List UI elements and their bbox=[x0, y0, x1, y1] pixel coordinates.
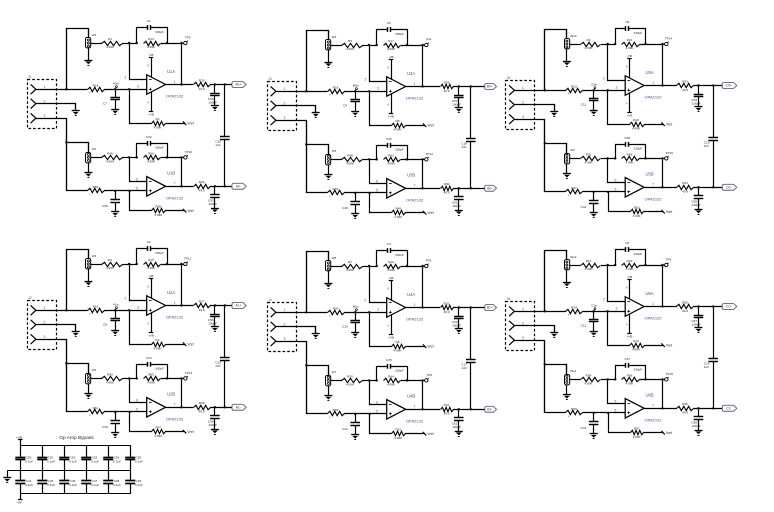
junction output/feedback lower bbox=[661, 186, 663, 188]
svg-text:4.99K: 4.99K bbox=[632, 126, 641, 130]
svg-text:4.99K: 4.99K bbox=[633, 214, 642, 218]
wire feedback right lower bbox=[161, 157, 182, 159]
capacitor C49 0.1uF bbox=[125, 471, 143, 494]
jumper W4 bbox=[86, 254, 97, 269]
jumper W10 bbox=[565, 34, 577, 49]
svg-text:TP4: TP4 bbox=[426, 38, 432, 42]
wire to inverting node bbox=[362, 266, 376, 268]
power rail -VB (pin 8) bbox=[387, 55, 393, 79]
svg-text:TP14: TP14 bbox=[665, 37, 673, 41]
wire TP stub lower bbox=[423, 159, 425, 161]
wire TP node stub bbox=[663, 265, 665, 267]
svg-text:R1: R1 bbox=[108, 37, 112, 41]
wire to inverting node lower bbox=[362, 159, 376, 161]
svg-text:TP8: TP8 bbox=[666, 258, 672, 262]
svg-text:R52: R52 bbox=[586, 152, 592, 156]
wire output to tag lower bbox=[453, 188, 485, 190]
output tag C1+ bbox=[722, 304, 737, 310]
svg-text:7: 7 bbox=[414, 405, 416, 409]
wire inverting node to pin6 bbox=[370, 381, 387, 405]
wire W bottom to ground lower bbox=[328, 386, 330, 396]
ground under W4 bbox=[84, 282, 92, 287]
ground under C64 bbox=[695, 107, 703, 112]
svg-text:TP9: TP9 bbox=[185, 36, 191, 40]
resistor R60 4.99K bbox=[102, 372, 123, 384]
wire W to R3 bbox=[91, 264, 102, 266]
junction output/feedback bbox=[421, 306, 423, 308]
capacitor C62 100pF lower bbox=[452, 409, 464, 431]
svg-text:4.99K: 4.99K bbox=[346, 268, 355, 272]
svg-text:5: 5 bbox=[615, 408, 617, 412]
junction C output top bbox=[697, 305, 699, 307]
svg-text:3: 3 bbox=[137, 85, 139, 89]
svg-text:4.99K: 4.99K bbox=[633, 435, 642, 439]
svg-text:100pF: 100pF bbox=[452, 102, 461, 106]
junction diff cap top bbox=[224, 304, 226, 306]
wire feedback to output lower bbox=[662, 158, 664, 187]
junction input node bbox=[593, 89, 595, 91]
svg-text:4.99K: 4.99K bbox=[106, 45, 115, 49]
svg-text:R31: R31 bbox=[444, 403, 450, 407]
svg-text:B1+: B1+ bbox=[487, 306, 493, 310]
output tag B1+ bbox=[485, 305, 497, 311]
jumper W1 bbox=[86, 147, 97, 163]
svg-text:R33: R33 bbox=[682, 79, 688, 83]
junction feedback left bbox=[614, 264, 616, 266]
svg-text:R53: R53 bbox=[634, 206, 640, 210]
junction inverting node lower bbox=[128, 156, 130, 158]
svg-text:1nF: 1nF bbox=[461, 366, 466, 370]
svg-text:-VB: -VB bbox=[148, 274, 153, 278]
junction inverting node bbox=[128, 263, 130, 265]
power rail +VB (pin 4) bbox=[147, 313, 153, 338]
svg-text:OPA2132: OPA2132 bbox=[166, 195, 184, 200]
wire J pin2 to ground bbox=[276, 106, 316, 113]
svg-text:330pF: 330pF bbox=[155, 366, 164, 370]
capacitor C39 bbox=[102, 412, 120, 433]
wire W loop top bbox=[67, 29, 89, 90]
wire J pin3 to lower half input bbox=[36, 119, 88, 191]
svg-text:C7: C7 bbox=[103, 101, 107, 105]
wire op-amp output top bbox=[166, 305, 194, 307]
wire W loop bottom bbox=[307, 145, 329, 155]
svg-text:R47: R47 bbox=[155, 426, 161, 430]
svg-text:4.99K: 4.99K bbox=[632, 347, 641, 351]
jumper W2 bbox=[86, 33, 97, 48]
svg-text:4.99K: 4.99K bbox=[625, 161, 634, 165]
junction feedback left bbox=[376, 265, 378, 267]
wire feedback right lower bbox=[161, 378, 182, 380]
svg-text:R68: R68 bbox=[627, 373, 633, 377]
junction inverting node lower bbox=[128, 377, 130, 379]
svg-text:R64: R64 bbox=[388, 374, 394, 378]
wire input node bbox=[344, 312, 387, 314]
op-amp U4B OPA2132 bbox=[376, 394, 424, 424]
svg-text:3: 3 bbox=[43, 114, 45, 118]
svg-text:Vref: Vref bbox=[427, 432, 433, 436]
power rail +VB (pin 4) bbox=[387, 94, 393, 119]
capacitor C37 330pF lower bbox=[616, 357, 646, 380]
resistor R15 4.99K feedback bbox=[144, 258, 161, 270]
svg-text:C32: C32 bbox=[146, 135, 152, 139]
op-amp U1B OPA2132 bbox=[136, 171, 184, 201]
wire feedback to output lower bbox=[422, 159, 424, 188]
junction output/feedback lower bbox=[421, 187, 423, 189]
svg-text:C8: C8 bbox=[103, 322, 107, 326]
svg-text:C28: C28 bbox=[102, 204, 108, 208]
svg-text:-VB: -VB bbox=[388, 276, 393, 280]
wire to inverting node lower bbox=[601, 158, 615, 160]
svg-text:R22: R22 bbox=[571, 84, 577, 88]
svg-text:R20: R20 bbox=[333, 306, 339, 310]
capacitor C46 0.1uF bbox=[59, 471, 77, 494]
resistor R17 4.99K feedback bbox=[384, 39, 401, 51]
wire W loop top bbox=[307, 252, 329, 313]
resistor R14 input bbox=[88, 83, 105, 95]
svg-text:+VB: +VB bbox=[388, 336, 394, 340]
svg-text:6: 6 bbox=[615, 399, 617, 403]
svg-text:TP12: TP12 bbox=[426, 152, 434, 156]
svg-text:A0+: A0+ bbox=[235, 83, 241, 87]
junction pin3 vertical / W loop lower bbox=[544, 142, 546, 144]
svg-text:4.99K: 4.99K bbox=[625, 382, 634, 386]
junction input node lower bbox=[593, 191, 595, 193]
svg-text:R24: R24 bbox=[571, 305, 577, 309]
wire TP node stub bbox=[423, 45, 425, 47]
wire middle rail bbox=[7, 470, 130, 472]
ground under W5 bbox=[324, 175, 332, 180]
svg-text:Vref: Vref bbox=[666, 343, 672, 347]
test point TP13 bbox=[184, 371, 193, 380]
power rail -VB (pin 8) bbox=[147, 274, 153, 298]
junction output/feedback bbox=[421, 85, 423, 87]
wire TP node stub bbox=[182, 43, 184, 45]
junction output/feedback lower bbox=[421, 408, 423, 410]
svg-text:2: 2 bbox=[364, 299, 366, 303]
resistor R25 49.9 bbox=[194, 78, 211, 91]
resistor R4 4.99K to Vref bbox=[130, 311, 185, 351]
wire W loop bottom bbox=[545, 365, 567, 375]
svg-text:5: 5 bbox=[136, 186, 138, 190]
svg-text:R11: R11 bbox=[586, 259, 592, 263]
junction feedback left bbox=[136, 263, 138, 265]
wire output to tag lower bbox=[210, 186, 232, 188]
junction diff cap lower bbox=[470, 187, 472, 189]
wire W bottom to ground bbox=[566, 49, 568, 61]
svg-text:2: 2 bbox=[124, 76, 126, 80]
resistor R26 49.9 lower bbox=[194, 180, 211, 193]
output tag B0+ bbox=[485, 84, 497, 90]
resistor R58 4.99K to Vref lower bbox=[130, 191, 185, 217]
svg-text:R48: R48 bbox=[347, 153, 353, 157]
ground under W1 bbox=[84, 173, 92, 178]
Vref net top bbox=[661, 122, 672, 126]
wire to inverting node bbox=[362, 45, 376, 47]
svg-text:2: 2 bbox=[522, 321, 524, 325]
ground under C63 bbox=[455, 329, 463, 334]
wire J pin1 to R input bbox=[514, 311, 566, 313]
wire J pin1 to R input bbox=[36, 310, 88, 312]
svg-text:Vref: Vref bbox=[187, 121, 193, 125]
svg-text:R51: R51 bbox=[395, 428, 401, 432]
svg-text:+VB: +VB bbox=[388, 115, 394, 119]
test point TP6 bbox=[425, 373, 433, 382]
wire W to R50 bbox=[331, 380, 342, 382]
junction TP node lower bbox=[661, 157, 663, 159]
output tag C1- bbox=[722, 405, 737, 411]
resistor R2 4.99K to Vref bbox=[130, 90, 185, 130]
junction feedback right bbox=[166, 263, 168, 265]
capacitor C14 1nF differential bbox=[704, 307, 718, 409]
ground under W11 bbox=[563, 395, 571, 400]
svg-text:3: 3 bbox=[283, 116, 285, 120]
svg-text:W8: W8 bbox=[332, 256, 337, 260]
svg-text:2: 2 bbox=[603, 298, 605, 302]
wire inverting node to pin2 bbox=[130, 44, 147, 80]
net flag A1in bbox=[113, 302, 119, 310]
svg-text:R36: R36 bbox=[682, 300, 688, 304]
wire J pin1 to R input bbox=[276, 312, 328, 314]
svg-text:R2: R2 bbox=[156, 117, 160, 121]
svg-text:49.9: 49.9 bbox=[199, 189, 205, 193]
wire feedback right bbox=[401, 266, 423, 268]
svg-text:Vref: Vref bbox=[666, 431, 672, 435]
capacitor C53 0.1uF bbox=[81, 445, 99, 471]
wire feedback to output bbox=[422, 45, 424, 87]
junction TP node lower bbox=[180, 156, 182, 158]
svg-text:1: 1 bbox=[283, 87, 285, 91]
resistor R50 4.99K bbox=[342, 374, 363, 386]
capacitor C52 0.1uF bbox=[59, 445, 77, 471]
resistor R13 4.99K feedback bbox=[144, 37, 161, 49]
resistor R49 4.99K to Vref lower bbox=[370, 193, 425, 219]
svg-text:0.1uF: 0.1uF bbox=[113, 483, 121, 487]
capacitor C51 0.1uF bbox=[37, 445, 55, 471]
junction vref branch top bbox=[607, 310, 609, 312]
junction pin1/W loop bbox=[65, 309, 67, 311]
svg-text:330pF: 330pF bbox=[634, 367, 643, 371]
wire feedback to output bbox=[662, 265, 664, 307]
resistor R30 49.9 lower bbox=[441, 182, 454, 195]
junction output/feedback lower bbox=[180, 406, 182, 408]
wire to inverting node lower bbox=[362, 380, 376, 382]
wire input node lower bbox=[344, 192, 387, 194]
svg-text:W12: W12 bbox=[570, 255, 577, 259]
junction pin3 vertical / W loop lower bbox=[305, 364, 307, 366]
svg-text:6: 6 bbox=[376, 400, 378, 404]
junction feedback right lower bbox=[644, 378, 646, 380]
jumper W6 bbox=[326, 35, 337, 50]
junction feedback left lower bbox=[136, 156, 138, 158]
junction TP node bbox=[661, 43, 663, 45]
svg-text:1nF: 1nF bbox=[461, 145, 466, 149]
wire output to tag lower bbox=[210, 407, 232, 409]
svg-text:330pF: 330pF bbox=[395, 147, 404, 151]
wire W loop bottom bbox=[67, 143, 89, 153]
capacitor C65 100pF lower bbox=[691, 187, 703, 209]
resistor R23 4.99K feedback bbox=[622, 259, 640, 271]
junction pin3 vertical / W loop lower bbox=[65, 141, 67, 143]
svg-text:TP6: TP6 bbox=[426, 373, 432, 377]
svg-text:R32: R32 bbox=[444, 301, 450, 305]
svg-text:7: 7 bbox=[174, 182, 176, 186]
svg-text:3: 3 bbox=[283, 337, 285, 341]
resistor R35 49.9 lower bbox=[677, 402, 694, 415]
wire op-amp output lower bbox=[166, 186, 194, 188]
svg-text:100pF: 100pF bbox=[692, 322, 701, 326]
test point TP9 bbox=[184, 36, 191, 45]
svg-text:J2: J2 bbox=[28, 296, 32, 300]
wire feedback right lower bbox=[401, 159, 423, 161]
jumper W3 bbox=[86, 368, 97, 384]
resistor R68 4.99K feedback lower bbox=[622, 373, 640, 385]
wire output to tag top bbox=[453, 86, 485, 88]
wire W loop top bbox=[67, 250, 89, 311]
svg-text:C41: C41 bbox=[342, 427, 348, 431]
junction vref branch top bbox=[128, 88, 130, 90]
svg-text:B1in: B1in bbox=[353, 304, 359, 308]
junction TP node lower bbox=[421, 158, 423, 160]
junction input node lower bbox=[593, 412, 595, 414]
junction diff cap lower bbox=[224, 185, 226, 187]
output tag C0- bbox=[722, 184, 737, 190]
svg-text:OPA2132: OPA2132 bbox=[166, 315, 184, 320]
svg-text:W5: W5 bbox=[332, 149, 337, 153]
wire feedback to output bbox=[662, 44, 664, 86]
svg-text:B0-: B0- bbox=[487, 187, 492, 191]
svg-text:1: 1 bbox=[522, 307, 524, 311]
output tag B1- bbox=[485, 406, 497, 412]
wire output to tag lower bbox=[453, 409, 485, 411]
junction vref branch lower bbox=[128, 190, 130, 192]
svg-text:C33: C33 bbox=[146, 356, 152, 360]
svg-text:330pF: 330pF bbox=[395, 368, 404, 372]
wire J pin3 to lower half input bbox=[36, 340, 88, 412]
svg-text:6: 6 bbox=[615, 178, 617, 182]
svg-text:49.9: 49.9 bbox=[199, 87, 205, 91]
junction C output lower bbox=[214, 406, 216, 408]
svg-text:100pF: 100pF bbox=[692, 203, 701, 207]
jumper W8 bbox=[326, 256, 337, 271]
wire TP node stub bbox=[182, 264, 184, 266]
svg-text:R57: R57 bbox=[634, 427, 640, 431]
wire input node bbox=[583, 311, 626, 313]
svg-text:4.99K: 4.99K bbox=[584, 46, 593, 50]
wire op-amp output top bbox=[644, 306, 677, 308]
svg-text:+VB: +VB bbox=[148, 113, 154, 117]
test point TP11 bbox=[184, 257, 192, 266]
wire input node bbox=[104, 310, 147, 312]
wire feedback right bbox=[639, 265, 662, 267]
svg-text:U1A: U1A bbox=[167, 69, 175, 74]
wire output to tag top bbox=[693, 85, 722, 87]
wire to inverting node lower bbox=[122, 378, 136, 380]
svg-text:R29: R29 bbox=[444, 80, 450, 84]
junction diff cap lower bbox=[470, 408, 472, 410]
svg-text:TP16: TP16 bbox=[666, 372, 674, 376]
ground under C10 bbox=[351, 333, 359, 338]
wire W bottom to ground lower bbox=[88, 163, 90, 173]
svg-text:A1in: A1in bbox=[113, 302, 119, 306]
svg-text:-VB: -VB bbox=[148, 53, 153, 57]
svg-text:Vref: Vref bbox=[666, 210, 672, 214]
capacitor C5 330pF bbox=[616, 20, 646, 45]
wire inverting node to pin6 bbox=[608, 159, 626, 183]
wire feedback to output lower bbox=[181, 157, 183, 186]
wire inverting node to pin6 bbox=[130, 379, 147, 403]
svg-text:4.99K: 4.99K bbox=[106, 160, 115, 164]
capacitor C11 bbox=[581, 90, 599, 110]
resistor R65 4.99K feedback lower bbox=[144, 372, 161, 384]
svg-text:R34: R34 bbox=[682, 181, 688, 185]
junction vref branch lower bbox=[368, 413, 370, 415]
svg-text:4.99K: 4.99K bbox=[346, 162, 355, 166]
junction diff cap top bbox=[470, 85, 472, 87]
svg-text:R25: R25 bbox=[199, 78, 205, 82]
svg-text:U5B: U5B bbox=[646, 172, 654, 177]
svg-text:1nF: 1nF bbox=[704, 144, 709, 148]
junction feedback left lower bbox=[376, 379, 378, 381]
resistor R59 input lower bbox=[88, 185, 105, 197]
wire inverting node to pin6 bbox=[370, 160, 387, 184]
Vref net lower bbox=[423, 211, 434, 215]
connector J1 bbox=[28, 75, 57, 129]
wire output to tag top bbox=[210, 84, 232, 86]
power rail +VB (pin 4) bbox=[387, 315, 393, 340]
ground J pin2 bbox=[550, 333, 558, 338]
junction C output lower bbox=[697, 407, 699, 409]
svg-text:+VB: +VB bbox=[148, 334, 154, 338]
wire feedback to output bbox=[181, 264, 183, 306]
junction vref branch lower bbox=[607, 412, 609, 414]
svg-text:1: 1 bbox=[174, 80, 176, 84]
ground under C40 bbox=[351, 214, 359, 219]
svg-text:B0in: B0in bbox=[353, 83, 359, 87]
junction feedback right bbox=[406, 265, 408, 267]
svg-text:4.99K: 4.99K bbox=[393, 348, 402, 352]
svg-text:49.9: 49.9 bbox=[443, 412, 449, 416]
wire TP node stub bbox=[423, 266, 425, 268]
capacitor C19 1nF differential bbox=[215, 306, 229, 408]
svg-text:1: 1 bbox=[652, 302, 654, 306]
svg-text:Vref: Vref bbox=[427, 211, 433, 215]
svg-text:U6A: U6A bbox=[646, 291, 654, 296]
svg-text:R66: R66 bbox=[627, 152, 633, 156]
wire to inverting node bbox=[601, 265, 615, 267]
jumper W12 bbox=[565, 255, 577, 270]
wire W bottom to ground bbox=[328, 271, 330, 283]
junction inverting node bbox=[607, 264, 609, 266]
svg-text:C1in: C1in bbox=[591, 303, 598, 307]
wire TP stub lower bbox=[663, 158, 665, 160]
wire output to tag lower bbox=[693, 187, 722, 189]
ground under C59 bbox=[211, 430, 219, 435]
svg-text:C5: C5 bbox=[625, 20, 629, 24]
svg-text:R23: R23 bbox=[627, 259, 633, 263]
wire to inverting node bbox=[122, 43, 136, 45]
output tag A1+ bbox=[232, 303, 246, 309]
svg-text:7: 7 bbox=[652, 404, 654, 408]
ground under W8 bbox=[324, 284, 332, 289]
svg-text:5: 5 bbox=[615, 187, 617, 191]
wire W bottom to ground lower bbox=[566, 164, 568, 174]
power rail -VB (pin 8) bbox=[387, 276, 393, 300]
wire op-amp output lower bbox=[644, 187, 677, 189]
junction TP node lower bbox=[421, 379, 423, 381]
jumper W11 bbox=[565, 369, 577, 385]
svg-text:R14: R14 bbox=[93, 83, 99, 87]
capacitor C55 0.1uF bbox=[125, 445, 143, 471]
